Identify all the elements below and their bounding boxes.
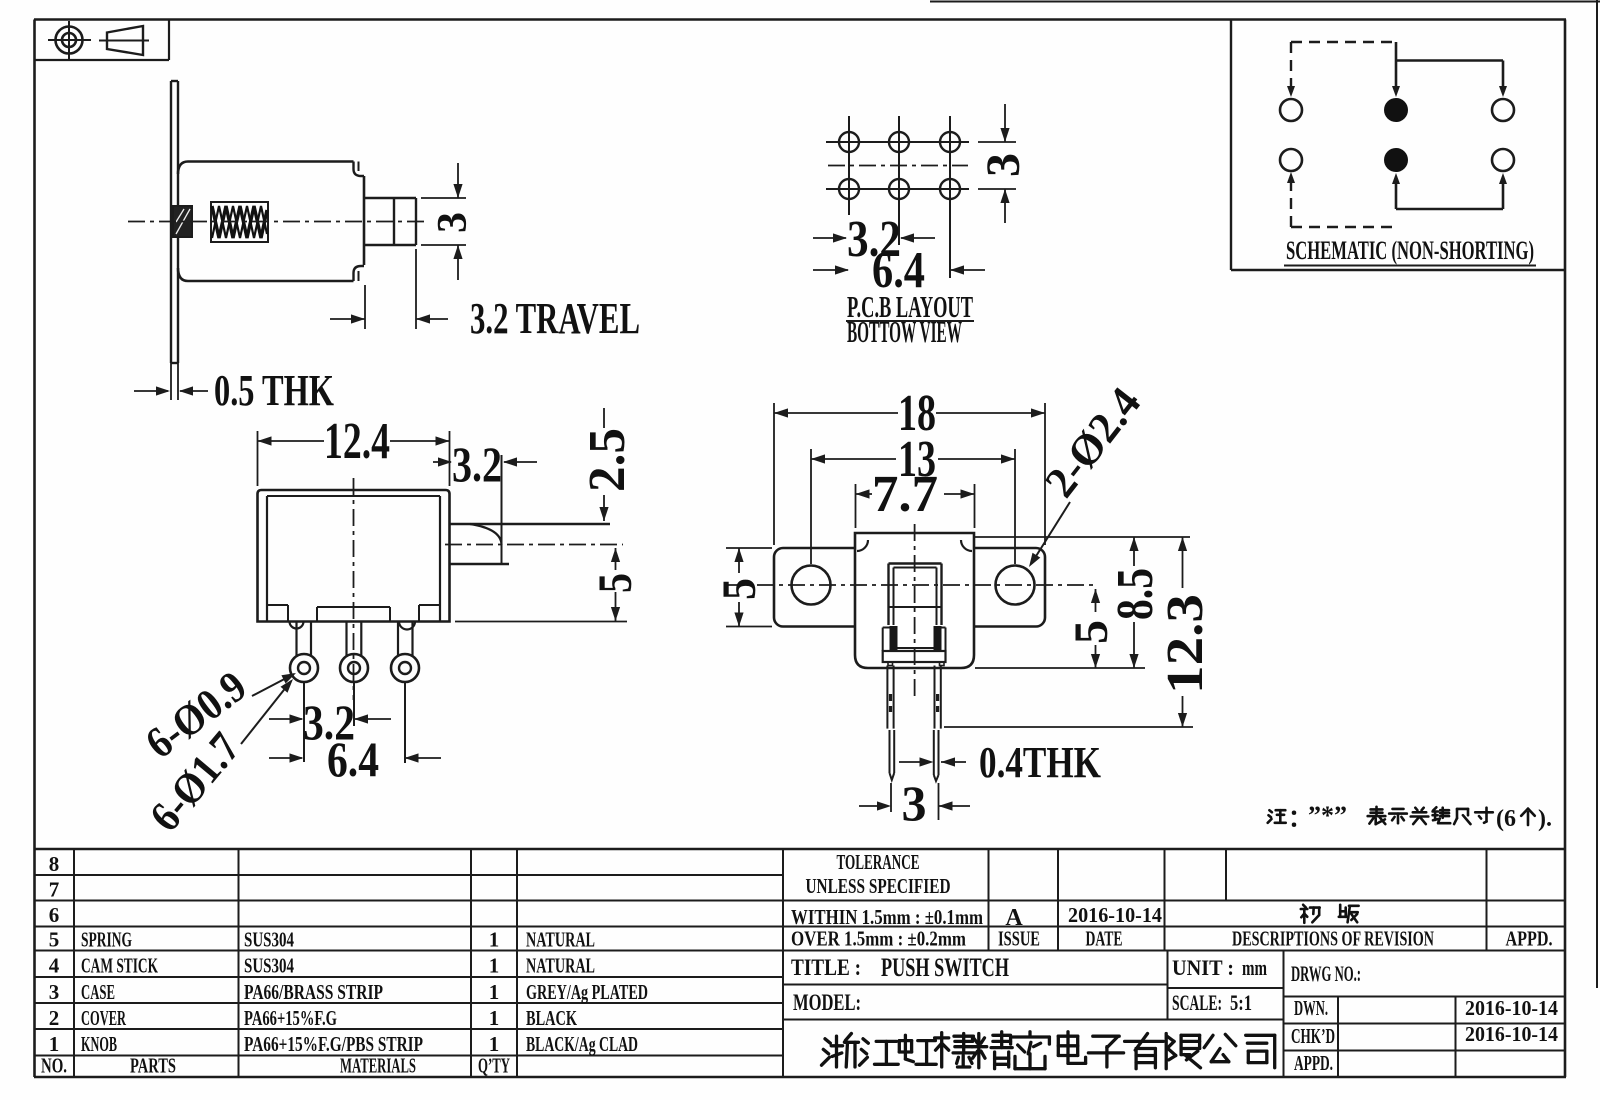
svg-text:DRWG NO.:: DRWG NO.: (1291, 961, 1361, 986)
svg-text:8: 8 (49, 852, 60, 876)
svg-text:1: 1 (489, 954, 500, 978)
svg-text:1: 1 (49, 1032, 60, 1056)
svg-text:).: ). (1538, 806, 1552, 832)
svg-text:5:1: 5:1 (1230, 990, 1252, 1015)
svg-text:TITLE :: TITLE : (791, 955, 861, 980)
svg-text:APPD.: APPD. (1506, 927, 1553, 951)
svg-text:SUS304: SUS304 (244, 928, 294, 952)
svg-text:3.2 TRAVEL: 3.2 TRAVEL (470, 294, 640, 343)
svg-text:DWN.: DWN. (1294, 996, 1328, 1020)
svg-text:PARTS: PARTS (130, 1054, 176, 1078)
svg-text:1: 1 (489, 1006, 500, 1030)
svg-text:3: 3 (902, 775, 927, 831)
svg-text:2016-10-14: 2016-10-14 (1465, 1022, 1558, 1046)
svg-text:3: 3 (430, 212, 476, 233)
svg-text:ISSUE: ISSUE (998, 927, 1040, 951)
svg-text:GREY/Ag PLATED: GREY/Ag PLATED (526, 980, 648, 1004)
svg-text:5: 5 (713, 578, 766, 600)
svg-text:SPRING: SPRING (81, 928, 132, 952)
svg-text:UNLESS SPECIFIED: UNLESS SPECIFIED (806, 874, 951, 898)
svg-text:6: 6 (49, 903, 60, 927)
svg-text:0.5 THK: 0.5 THK (214, 366, 334, 415)
svg-text:PA66+15%F.G/PBS STRIP: PA66+15%F.G/PBS STRIP (244, 1032, 423, 1056)
svg-text:NO.: NO. (41, 1054, 67, 1078)
svg-text:5: 5 (1065, 620, 1118, 644)
svg-text:PA66/BRASS STRIP: PA66/BRASS STRIP (244, 980, 383, 1004)
svg-text:2.5: 2.5 (579, 428, 636, 492)
svg-text:CAM STICK: CAM STICK (81, 954, 158, 978)
svg-text:NATURAL: NATURAL (526, 954, 595, 978)
svg-text:(6: (6 (1496, 806, 1516, 832)
svg-text:COVER: COVER (81, 1006, 126, 1030)
svg-text:”*”: ”*” (1308, 801, 1347, 830)
svg-text:7: 7 (49, 878, 60, 902)
svg-text:SCALE:: SCALE: (1172, 990, 1222, 1015)
svg-text:TOLERANCE: TOLERANCE (837, 850, 920, 874)
svg-text:PUSH SWITCH: PUSH SWITCH (881, 953, 1009, 982)
svg-text:1: 1 (489, 980, 500, 1004)
svg-text:UNIT :: UNIT : (1172, 955, 1234, 980)
svg-text:0.4THK: 0.4THK (979, 738, 1101, 787)
svg-text:3: 3 (977, 153, 1030, 177)
svg-text:OVER 1.5mm : ±0.2mm: OVER 1.5mm : ±0.2mm (791, 927, 966, 951)
svg-text:DESCRIPTIONS OF REVISION: DESCRIPTIONS OF REVISION (1232, 927, 1434, 951)
svg-text:5: 5 (49, 928, 60, 952)
svg-text:APPD.: APPD. (1294, 1051, 1333, 1075)
svg-text:7.7: 7.7 (872, 466, 938, 523)
svg-text:6.4: 6.4 (327, 731, 379, 787)
svg-text:5: 5 (589, 573, 642, 593)
svg-text:SUS304: SUS304 (244, 954, 294, 978)
svg-text:3.2: 3.2 (452, 436, 502, 492)
svg-text:CHK’D: CHK’D (1291, 1024, 1335, 1048)
svg-text:BOTTOW VIEW: BOTTOW VIEW (847, 314, 962, 349)
svg-text:4: 4 (49, 954, 60, 978)
svg-text:3: 3 (49, 980, 60, 1004)
svg-text:mm: mm (1242, 955, 1267, 980)
svg-text:Q’TY: Q’TY (478, 1054, 510, 1078)
svg-text:2016-10-14: 2016-10-14 (1465, 996, 1558, 1020)
svg-text:DATE: DATE (1086, 927, 1123, 951)
svg-text:NATURAL: NATURAL (526, 928, 595, 952)
svg-text:2: 2 (49, 1006, 60, 1030)
svg-text:1: 1 (489, 928, 500, 952)
svg-text:12.4: 12.4 (324, 413, 390, 470)
svg-text:SCHEMATIC (NON-SHORTING): SCHEMATIC (NON-SHORTING) (1286, 236, 1534, 265)
svg-text:WITHIN 1.5mm : ±0.1mm: WITHIN 1.5mm : ±0.1mm (791, 905, 983, 929)
svg-text:CASE: CASE (81, 980, 115, 1004)
svg-text:PA66+15%F.G: PA66+15%F.G (244, 1006, 337, 1030)
svg-text:MODEL:: MODEL: (793, 990, 861, 1015)
svg-text:8.5: 8.5 (1107, 568, 1164, 620)
svg-text:BLACK/Ag CLAD: BLACK/Ag CLAD (526, 1032, 638, 1056)
svg-text:2016-10-14: 2016-10-14 (1068, 903, 1162, 927)
svg-text:1: 1 (489, 1032, 500, 1056)
svg-text:12.3: 12.3 (1157, 594, 1214, 694)
svg-text:KNOB: KNOB (81, 1032, 117, 1056)
svg-text:BLACK: BLACK (526, 1006, 577, 1030)
svg-text:MATERIALS: MATERIALS (340, 1054, 416, 1078)
